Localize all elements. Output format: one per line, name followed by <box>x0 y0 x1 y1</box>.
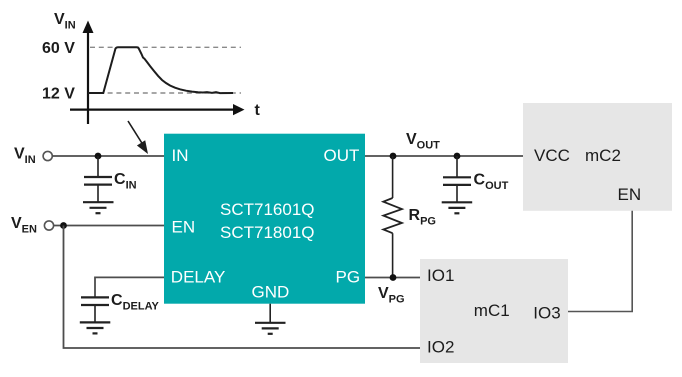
terminal VIN <box>43 151 52 160</box>
graph y-axis <box>83 21 94 125</box>
svg-text:PG: PG <box>336 267 361 286</box>
wire VOUT down to resistor <box>392 156 394 198</box>
svg-text:VIN: VIN <box>54 11 76 32</box>
annotation arrow to IN pin <box>128 121 148 154</box>
terminal VEN <box>44 221 53 230</box>
ground (CDELAY) <box>80 322 111 333</box>
capacitor CDELAY <box>81 297 109 322</box>
capacitor COUT <box>443 156 471 202</box>
MCU block mC2 <box>523 103 672 211</box>
svg-text:VEN: VEN <box>11 215 37 236</box>
wire PG pin to IO1 (mC1) <box>365 277 420 279</box>
svg-text:mC1: mC1 <box>474 301 510 320</box>
svg-text:12 V: 12 V <box>42 86 75 103</box>
svg-text:VIN: VIN <box>14 146 36 167</box>
svg-text:OUT: OUT <box>324 146 360 165</box>
GND pin wire <box>269 304 271 323</box>
dashed level line 60V <box>90 46 241 48</box>
svg-text:IO2: IO2 <box>427 338 454 357</box>
wire VIN to IN pin <box>52 155 164 157</box>
wire mC2 EN to mC1 IO3 <box>568 211 632 312</box>
junction node VIN/CIN <box>95 153 102 160</box>
svg-text:VCC: VCC <box>534 146 570 165</box>
junction node VEN <box>60 222 67 229</box>
ground (CIN) <box>83 202 114 213</box>
wire DELAY pin to CDELAY <box>95 277 164 297</box>
svg-text:DELAY: DELAY <box>171 267 226 286</box>
IC U1 SCT71601Q/SCT71801Q body <box>164 134 365 304</box>
junction node COUT <box>454 153 461 160</box>
wire OUT pin to VCC (mC2) <box>365 155 523 157</box>
svg-text:COUT: COUT <box>474 171 509 192</box>
svg-text:IO1: IO1 <box>427 266 454 285</box>
svg-text:VOUT: VOUT <box>406 131 440 152</box>
graph x-axis <box>70 104 245 115</box>
svg-text:IN: IN <box>172 146 189 165</box>
svg-text:EN: EN <box>618 185 642 204</box>
svg-text:SCT71801Q: SCT71801Q <box>220 223 315 242</box>
svg-text:EN: EN <box>172 218 196 237</box>
svg-text:CIN: CIN <box>114 171 137 192</box>
svg-text:60 V: 60 V <box>42 40 75 57</box>
node VPG <box>390 274 397 281</box>
dashed level line 12V <box>90 92 241 94</box>
MCU block mC1 <box>420 259 568 363</box>
wire VEN down to IO2 <box>64 226 421 349</box>
ground (COUT) <box>442 202 473 213</box>
node VOUT <box>390 153 397 160</box>
ground (GND pin) <box>255 323 286 334</box>
svg-text:SCT71601Q: SCT71601Q <box>220 200 315 219</box>
svg-text:IO3: IO3 <box>533 304 560 323</box>
capacitor CIN <box>84 156 112 202</box>
svg-text:t: t <box>255 102 261 119</box>
VIN transient curve <box>88 47 233 93</box>
resistor RPG <box>383 198 402 233</box>
wire resistor to PG pin level <box>392 233 394 277</box>
svg-text:VPG: VPG <box>378 285 405 306</box>
svg-text:GND: GND <box>252 283 290 302</box>
svg-text:RPG: RPG <box>409 207 436 228</box>
svg-text:CDELAY: CDELAY <box>111 292 159 313</box>
svg-text:mC2: mC2 <box>585 146 621 165</box>
wire VEN to EN pin <box>54 225 164 227</box>
